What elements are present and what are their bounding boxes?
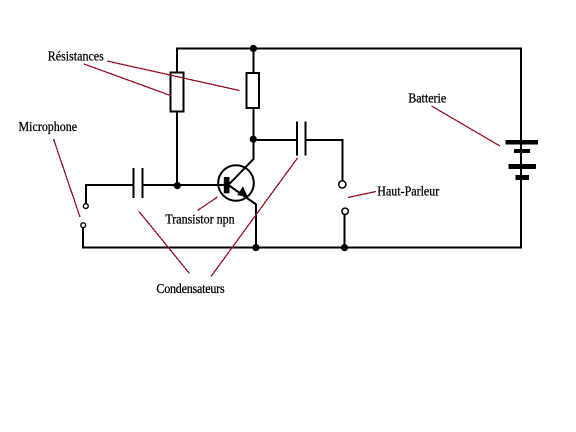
- wire C2 to speaker corner: [307, 139, 344, 141]
- leader Resistances to R1: [84, 64, 171, 96]
- microphone terminal upper: [83, 204, 88, 209]
- svg-text:Condensateurs: Condensateurs: [156, 281, 224, 296]
- transistor Q1 collector diagonal: [229, 159, 254, 184]
- capacitor C2 right plate: [305, 122, 307, 156]
- battery plate long top: [506, 140, 538, 145]
- wire speaker lower lead: [344, 215, 346, 249]
- leader Transistor npn: [198, 197, 218, 211]
- wire collector node to C2: [253, 139, 297, 141]
- wire mic to capacitor C1: [85, 184, 133, 186]
- svg-text:Transistor npn: Transistor npn: [165, 212, 235, 227]
- wire right rail (battery branch): [520, 48, 522, 249]
- wire R2 top lead: [252, 48, 254, 72]
- capacitor C2 left plate: [296, 122, 298, 156]
- leader Microphone: [54, 139, 81, 217]
- leader Condensateurs to C1: [139, 212, 190, 274]
- wire microphone upper lead: [85, 184, 87, 204]
- node collector junction: [250, 136, 257, 143]
- speaker terminal upper: [339, 181, 346, 188]
- svg-text:Haut-Parleur: Haut-Parleur: [377, 184, 440, 199]
- leader Condensateurs to C2: [211, 158, 298, 277]
- wire R1 bottom lead to base node: [176, 112, 178, 186]
- battery plate long bottom: [509, 164, 536, 169]
- capacitor C1 right plate: [141, 168, 143, 198]
- node speaker bottom junction: [341, 244, 348, 251]
- svg-text:Batterie: Batterie: [408, 91, 446, 106]
- wire microphone lower lead: [82, 227, 84, 249]
- resistor R2: [247, 73, 260, 108]
- transistor Q1 emitter diagonal: [229, 186, 256, 205]
- transistor Q1 circle: [218, 165, 254, 201]
- transistor Q1 base bar: [224, 177, 230, 193]
- wire speaker upper lead: [342, 139, 344, 181]
- svg-text:Microphone: Microphone: [19, 120, 78, 135]
- transistor Q1 emitter arrow: [237, 186, 247, 197]
- battery plate short upper: [514, 149, 530, 153]
- battery plate short lower: [516, 175, 529, 180]
- leader Resistances to R2: [107, 61, 240, 91]
- capacitor C1 left plate: [132, 168, 134, 198]
- node top rail junction: [250, 45, 257, 52]
- node base junction: [174, 182, 181, 189]
- node emitter bottom junction: [252, 244, 259, 251]
- leader Haut-Parleur: [348, 192, 376, 198]
- svg-text:Résistances: Résistances: [48, 49, 104, 64]
- wire emitter vertical: [255, 204, 257, 249]
- resistor R1: [171, 73, 184, 112]
- wire R2 bottom lead to collector: [252, 108, 254, 160]
- microphone terminal lower: [81, 223, 86, 228]
- wire R1 top lead: [176, 48, 178, 72]
- wire bottom rail: [82, 247, 522, 249]
- leader Batterie: [432, 106, 501, 146]
- speaker terminal lower: [342, 208, 348, 214]
- wire top rail: [176, 48, 522, 50]
- wire C1 to transistor base: [142, 184, 224, 186]
